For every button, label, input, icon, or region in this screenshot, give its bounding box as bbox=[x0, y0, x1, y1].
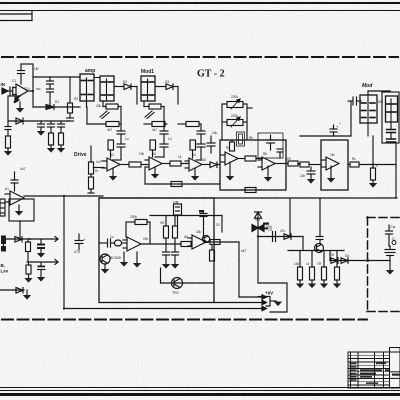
diode D5 bbox=[155, 84, 178, 104]
svg-text:33k: 33k bbox=[196, 230, 202, 234]
svg-text:A1: A1 bbox=[5, 187, 9, 191]
svg-text:TR: TR bbox=[317, 262, 322, 266]
svg-text:A4: A4 bbox=[192, 153, 196, 157]
svg-text:1k: 1k bbox=[178, 155, 182, 159]
dashed schematic frame bottom bbox=[2, 319, 367, 321]
ground U9 b bbox=[133, 252, 141, 268]
svg-text:C0: C0 bbox=[216, 223, 220, 227]
DC jack +9V bbox=[258, 283, 287, 312]
svg-text:Ca: Ca bbox=[390, 224, 396, 229]
resistor R7 coupling row1 bbox=[87, 107, 121, 127]
resistor R10 bbox=[120, 162, 149, 167]
resistor R29 into U10 bbox=[141, 242, 191, 247]
wire VR3 bus bbox=[150, 216, 222, 233]
resistor R20 vertical bbox=[89, 146, 105, 174]
wire bias bus 2 bbox=[27, 260, 58, 265]
capacitor C4 bbox=[47, 89, 54, 107]
capacitor C26 bbox=[316, 198, 323, 244]
wire U10 output bbox=[206, 241, 239, 243]
trimmer VR1 bbox=[222, 99, 247, 109]
wire output riser bbox=[31, 64, 33, 107]
resistor R36 below B1 bbox=[240, 188, 261, 193]
capacitor C8 + resistor R4 bbox=[57, 121, 65, 153]
resistor R28 vertical bbox=[173, 226, 178, 252]
terminal block T1 left edge bbox=[1, 236, 6, 252]
svg-text:Rb: Rb bbox=[249, 136, 253, 140]
wire V+ rail 3 bbox=[64, 306, 267, 310]
resistor R13 vertical bbox=[230, 140, 235, 151]
svg-text:+: + bbox=[83, 237, 86, 242]
svg-text:C9: C9 bbox=[268, 228, 272, 232]
svg-text:mo: mo bbox=[36, 87, 41, 91]
resistor R8 coupling row2 bbox=[144, 122, 167, 127]
svg-text:1M: 1M bbox=[330, 153, 335, 157]
capacitor C5 bbox=[67, 118, 74, 121]
svg-text:4u7: 4u7 bbox=[96, 160, 102, 164]
resistor R32 to ground bbox=[308, 251, 316, 289]
ground U4 bbox=[191, 168, 199, 181]
svg-text:TL0: TL0 bbox=[24, 87, 30, 91]
resistor R14 bbox=[238, 156, 262, 161]
transistor Q3 on rail bbox=[315, 244, 324, 253]
diode D9 bbox=[15, 237, 22, 243]
wire feedback left riser bbox=[221, 104, 223, 140]
svg-text:Rc: Rc bbox=[352, 157, 356, 161]
resistor R19 to ground bbox=[369, 165, 377, 188]
capacitor C16 bbox=[348, 97, 361, 136]
ground check bbox=[23, 290, 31, 300]
ground U5 bbox=[226, 162, 234, 181]
transistor Q4 bbox=[202, 235, 209, 242]
svg-text:9V1: 9V1 bbox=[255, 218, 261, 222]
electrolytic C14 boxed bbox=[258, 133, 283, 158]
wire feedback right riser bbox=[247, 104, 252, 140]
wire V+ rail 2 bbox=[214, 300, 267, 304]
svg-text:4k7: 4k7 bbox=[152, 128, 157, 132]
svg-text:+9V: +9V bbox=[265, 291, 273, 296]
svg-text:Dr: Dr bbox=[95, 169, 99, 173]
wire vref riser bbox=[289, 198, 291, 237]
capacitor C19 dark bbox=[37, 239, 45, 258]
capacitor C21 input bbox=[99, 239, 114, 247]
coupling network C11 bbox=[196, 124, 205, 160]
resistor R40 above U4 bbox=[190, 140, 196, 158]
resistor R21 vertical bbox=[88, 174, 94, 193]
wire to amp pot top bbox=[33, 76, 80, 78]
svg-text:IN: IN bbox=[1, 82, 6, 87]
resistor R33 to ground bbox=[320, 251, 328, 289]
zener pair D11/D12 bbox=[252, 223, 269, 232]
potentiometer P1a amp bbox=[80, 74, 94, 107]
svg-text:BC549: BC549 bbox=[110, 256, 121, 260]
dashed schematic frame top bbox=[2, 56, 398, 58]
svg-text:B.: B. bbox=[1, 263, 6, 268]
node junction A bbox=[32, 90, 34, 92]
svg-text:4u7: 4u7 bbox=[20, 167, 26, 171]
transistor Q1 bbox=[100, 254, 110, 274]
svg-text:22n: 22n bbox=[300, 174, 306, 178]
page bottom border line 1 bbox=[0, 387, 400, 389]
svg-text:Le: Le bbox=[28, 237, 32, 241]
title block table bbox=[348, 352, 390, 388]
electrolytic C17 bbox=[330, 124, 339, 136]
svg-text:220k: 220k bbox=[231, 95, 238, 99]
node junction E bbox=[257, 235, 259, 237]
node junction D bbox=[63, 307, 65, 309]
resistor R39 above U3 bbox=[150, 140, 156, 157]
svg-text:1u: 1u bbox=[125, 137, 129, 141]
coupling network C9 bbox=[112, 124, 125, 160]
capacitor C22 bbox=[162, 252, 170, 269]
title block right box bbox=[390, 348, 400, 389]
resistor R17 bbox=[299, 162, 321, 167]
wire riser to Mod pot bbox=[372, 136, 374, 165]
svg-text:A6: A6 bbox=[184, 235, 188, 239]
wire Mod bus bbox=[300, 135, 351, 137]
dashed output-section box left edge bbox=[367, 217, 369, 312]
svg-text:R3: R3 bbox=[74, 97, 78, 101]
svg-text:47u: 47u bbox=[74, 250, 80, 254]
input terminal IN bbox=[1, 82, 13, 94]
capacitor C18 above U8 bbox=[11, 172, 18, 191]
page top border line 2 bbox=[0, 10, 400, 12]
scan noise overlay bbox=[0, 0, 1, 1]
op-amp U2 bbox=[102, 158, 120, 171]
svg-text:1k: 1k bbox=[306, 262, 310, 266]
svg-text:A2: A2 bbox=[110, 153, 114, 157]
wire bias bus bbox=[6, 221, 58, 242]
svg-text:D5: D5 bbox=[330, 253, 334, 257]
potentiometer P2 Mod1 bbox=[141, 76, 155, 101]
top-left partial header strip bbox=[0, 11, 32, 21]
capacitor C13 bbox=[277, 149, 283, 158]
capacitor C25 bbox=[273, 232, 276, 242]
wire Mod top bbox=[368, 90, 390, 92]
svg-text:1u: 1u bbox=[168, 137, 172, 141]
ground U7 bbox=[327, 166, 335, 183]
connector J1 left edge bbox=[0, 199, 5, 216]
svg-text:10u: 10u bbox=[212, 131, 218, 135]
svg-text:A3: A3 bbox=[152, 152, 156, 156]
svg-text:10k: 10k bbox=[139, 152, 145, 156]
wire feedback long bbox=[145, 167, 220, 184]
bias rail wire bbox=[288, 250, 344, 252]
resistor R12 bbox=[171, 182, 182, 187]
capacitor C29 box right edge bbox=[199, 210, 207, 236]
box around U8 bbox=[9, 199, 34, 221]
capacitor C1 bbox=[10, 87, 13, 95]
wire bias to rail bbox=[258, 237, 303, 251]
wire bias row bbox=[8, 120, 70, 122]
pot outer box bbox=[382, 92, 399, 143]
svg-text:Lev: Lev bbox=[1, 269, 9, 274]
diode D7 diagonal bbox=[145, 111, 154, 119]
node junction C bbox=[63, 195, 65, 197]
capacitor C12 bbox=[207, 136, 215, 153]
op-amp U10 bbox=[188, 235, 206, 249]
pot VR3 bbox=[173, 200, 182, 227]
resistor R27 vertical bbox=[164, 226, 169, 252]
coupling network C10 bbox=[155, 124, 168, 157]
diode D2 bbox=[16, 118, 23, 124]
capacitor C3 bbox=[47, 77, 54, 89]
ground U6 bbox=[264, 166, 272, 182]
resistor R37 output of U10 bbox=[210, 240, 220, 245]
wire feedback top bbox=[21, 63, 33, 65]
svg-text:47k: 47k bbox=[286, 157, 292, 161]
capacitor C7 + resistor R3 bbox=[47, 121, 55, 153]
resistor R24 column bbox=[26, 239, 31, 262]
op-amp U1 bbox=[13, 84, 33, 98]
svg-text:220k: 220k bbox=[130, 215, 137, 219]
svg-text:D3: D3 bbox=[165, 80, 169, 84]
dashed output-section box top edge bbox=[367, 217, 400, 219]
svg-text:D2: D2 bbox=[123, 80, 127, 84]
switch S1 block bbox=[387, 122, 396, 143]
sub-box bottom edge bbox=[161, 268, 214, 283]
svg-text:C1: C1 bbox=[12, 79, 16, 83]
svg-text:4k7: 4k7 bbox=[241, 249, 246, 253]
wire check bus bbox=[0, 289, 24, 291]
resistor R35 output bbox=[386, 256, 394, 275]
power rail wire bbox=[99, 197, 397, 199]
transistor Q2 bbox=[172, 278, 183, 296]
diode D4 bbox=[114, 84, 137, 104]
svg-text:+: + bbox=[339, 122, 341, 126]
capacitor C15 to ground bbox=[307, 167, 315, 184]
page bottom thick border bbox=[0, 393, 400, 396]
resistor R15 output of B1 bbox=[275, 161, 299, 166]
diode D6 diagonal bbox=[100, 111, 109, 119]
ground U3 bbox=[151, 167, 159, 179]
page bottom border line 2 bbox=[0, 390, 400, 392]
resistor R34 to ground bbox=[333, 251, 341, 289]
svg-text:47u: 47u bbox=[280, 229, 286, 233]
tiny value labels bbox=[5, 67, 395, 266]
potentiometer P3 Mod bbox=[360, 91, 377, 136]
diode D10 bbox=[16, 288, 23, 294]
op-amp U4 bbox=[185, 158, 202, 171]
wire lower branch bbox=[33, 106, 80, 108]
capacitor C27 bbox=[386, 225, 393, 246]
node junction B bbox=[372, 163, 374, 165]
resistor R26 feedback bbox=[126, 220, 150, 245]
page top border line 1 bbox=[0, 2, 400, 4]
capacitor C20 bbox=[37, 262, 45, 282]
resistor R9 coupling row3 bbox=[178, 122, 201, 127]
wire right edge riser bbox=[395, 143, 397, 198]
electrolytic C24 bbox=[74, 234, 86, 254]
capacitor C23 bbox=[171, 252, 179, 269]
resistor R30 vertical bbox=[210, 246, 215, 261]
svg-text:1u: 1u bbox=[110, 235, 114, 239]
diode D14 bbox=[331, 258, 338, 264]
capacitor C6 bbox=[37, 121, 45, 136]
stage box B2 bbox=[321, 140, 348, 190]
svg-text:Mod: Mod bbox=[362, 83, 373, 89]
op-amp U6 bbox=[258, 157, 275, 170]
op-amp U7 bbox=[322, 157, 339, 170]
potentiometer P1b amp bbox=[94, 76, 114, 101]
op-amp U5 bbox=[221, 152, 238, 165]
resistor R25 column bbox=[24, 262, 32, 283]
resistor R16 vertical boxed bbox=[237, 132, 245, 146]
op-amp U3 bbox=[145, 157, 162, 170]
dashed output-section box bottom edge bbox=[367, 311, 400, 313]
resistor R31 to ground bbox=[296, 251, 304, 289]
svg-text:1M: 1M bbox=[34, 67, 39, 71]
svg-text:10k: 10k bbox=[294, 262, 300, 266]
resistor R6 below P2 bbox=[144, 101, 164, 124]
label B.Level bbox=[1, 263, 9, 274]
svg-text:50k: 50k bbox=[378, 100, 384, 104]
supply arrow node bbox=[254, 212, 261, 283]
ground below U1 bbox=[16, 102, 24, 113]
feedback capacitor C2 bbox=[18, 64, 25, 84]
resistor R1 chain left bbox=[4, 96, 19, 156]
svg-text:GT - 2: GT - 2 bbox=[197, 69, 225, 80]
capacitor C28 output bbox=[385, 241, 396, 256]
node junction F bbox=[367, 259, 370, 262]
wire long riser down bbox=[63, 196, 65, 309]
resistor R38 above U2 bbox=[108, 140, 114, 158]
diode D8 bbox=[202, 162, 220, 168]
diode D15 bbox=[341, 258, 348, 264]
title block text smudges bbox=[350, 363, 400, 384]
inductor L1 bbox=[114, 240, 127, 246]
potentiometer P4 Mod bbox=[386, 96, 398, 122]
svg-text:4k7: 4k7 bbox=[107, 128, 112, 132]
resistor R11 bbox=[162, 161, 189, 166]
svg-text:22k: 22k bbox=[96, 104, 102, 108]
ground U9 a bbox=[120, 252, 128, 267]
svg-text:220k: 220k bbox=[231, 114, 238, 118]
wire to output bbox=[330, 251, 390, 261]
wire U10 to jack bbox=[239, 242, 267, 299]
diode D3 bbox=[46, 105, 54, 110]
svg-text:Mod1: Mod1 bbox=[141, 69, 154, 75]
resistor R18 bbox=[348, 162, 396, 167]
svg-text:2k2: 2k2 bbox=[201, 158, 206, 162]
resistor R5 below P1 bbox=[103, 101, 121, 124]
op-amp U9 bbox=[123, 237, 141, 251]
op-amp U8 bbox=[5, 191, 24, 205]
svg-text:TR2: TR2 bbox=[172, 291, 179, 295]
ground U2 bbox=[109, 168, 117, 181]
stage box B1 bbox=[220, 140, 286, 190]
diode D13 bbox=[284, 234, 291, 240]
trimmer VR2 bbox=[222, 117, 247, 127]
diode D1 bbox=[14, 95, 21, 103]
resistor R2 bbox=[68, 77, 73, 118]
svg-text:Rb: Rb bbox=[263, 152, 267, 156]
svg-text:VR: VR bbox=[160, 221, 165, 225]
block box B3 bbox=[99, 198, 214, 303]
svg-text:D1: D1 bbox=[55, 100, 59, 104]
svg-text:Drive: Drive bbox=[74, 152, 87, 158]
svg-text:amp: amp bbox=[85, 68, 95, 74]
svg-text:Ra: Ra bbox=[226, 146, 230, 150]
svg-text:22n: 22n bbox=[143, 237, 149, 241]
svg-text:D4: D4 bbox=[345, 254, 349, 258]
wire level out bbox=[24, 195, 103, 197]
ground U8 bbox=[15, 205, 23, 216]
